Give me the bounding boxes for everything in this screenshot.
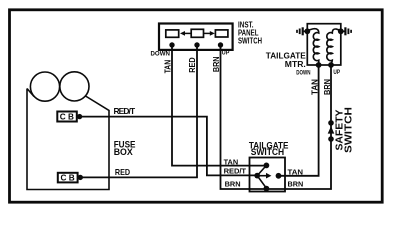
S1 right button bbox=[215, 30, 228, 37]
fuse box outline bbox=[27, 89, 109, 190]
S2 wiper to bottom contact bbox=[257, 176, 266, 189]
FUSE BOX label bbox=[114, 139, 136, 157]
M1 DOWN winding coil bbox=[307, 29, 319, 65]
svg-text:TAN: TAN bbox=[163, 60, 173, 74]
wire TAN : S1 DOWN terminal to tailgate switch top contact bbox=[172, 45, 266, 166]
S1 terminal dot UP bbox=[218, 42, 223, 47]
SAFETY SWITCH label (rotated) bbox=[334, 107, 354, 153]
S2 common contact dot (left) bbox=[254, 173, 260, 179]
svg-text:RED: RED bbox=[115, 167, 130, 177]
svg-text:RED: RED bbox=[187, 57, 197, 73]
svg-text:SWITCH: SWITCH bbox=[238, 36, 262, 46]
ground (left of motor) bbox=[297, 27, 307, 35]
S1 left arrow bbox=[180, 31, 191, 36]
S2 top contact dot bbox=[264, 163, 270, 169]
INST. PANEL SWITCH label bbox=[238, 19, 262, 45]
wire RED : CB2 up to instrument panel switch bbox=[81, 45, 198, 177]
CB2 terminal dot bbox=[78, 175, 83, 180]
svg-text:BRN: BRN bbox=[225, 180, 241, 189]
TAILGATE SWITCH title bbox=[249, 140, 289, 157]
svg-text:BRN: BRN bbox=[288, 179, 304, 188]
M1 top-right terminal dot bbox=[338, 28, 344, 34]
S1 left button bbox=[166, 30, 179, 37]
svg-text:C B: C B bbox=[61, 174, 75, 183]
M1 UP winding coil bbox=[327, 29, 341, 65]
wire TAN : S2 right contact up to motor DOWN winding bbox=[279, 65, 319, 176]
svg-text:BRN: BRN bbox=[211, 56, 221, 72]
TAILGATE MTR. label bbox=[266, 51, 306, 70]
S2 wiper to top contact bbox=[257, 165, 266, 175]
svg-text:SWITCH: SWITCH bbox=[343, 107, 354, 153]
instrument panel switch S1 box bbox=[159, 24, 233, 50]
circuit breaker CB1 box bbox=[57, 112, 77, 122]
svg-text:TAN: TAN bbox=[224, 158, 239, 167]
svg-text:DOWN: DOWN bbox=[296, 70, 311, 77]
svg-text:UP: UP bbox=[222, 50, 230, 57]
circuit breaker CB2 box bbox=[58, 173, 78, 183]
svg-text:TAN: TAN bbox=[288, 168, 304, 177]
M1 top-left terminal dot bbox=[304, 28, 310, 34]
S2 bottom contact dot bbox=[264, 186, 270, 192]
frame border bbox=[10, 10, 383, 202]
svg-text:RED/T: RED/T bbox=[224, 167, 247, 176]
S2 right contact dot bbox=[276, 173, 282, 179]
safety switch S3 lower dot bbox=[328, 136, 334, 142]
safety switch S3 upper dot bbox=[328, 120, 334, 126]
M1 bottom terminal dot (UP/BRN) bbox=[328, 62, 334, 68]
wire RED/T : CB1 to tailgate switch feed bbox=[80, 117, 255, 176]
S1 center button bbox=[191, 29, 203, 37]
svg-text:MTR.: MTR. bbox=[285, 59, 306, 69]
fuse box circuit breaker coil 2 bbox=[60, 72, 89, 101]
svg-text:TAN: TAN bbox=[309, 79, 319, 95]
S1 right arrow bbox=[204, 31, 215, 36]
tailgate motor M1 box bbox=[307, 24, 341, 65]
svg-text:RED/T: RED/T bbox=[114, 106, 136, 116]
svg-text:BOX: BOX bbox=[114, 147, 133, 157]
S2 wiper arrow to right contact bbox=[257, 173, 271, 179]
svg-text:C B: C B bbox=[60, 113, 74, 122]
M1 bottom terminal dot (DOWN/TAN) bbox=[316, 62, 322, 68]
safety switch S3 arrow bbox=[328, 126, 335, 133]
svg-text:BRN: BRN bbox=[322, 79, 332, 95]
wire BRN : S1 UP terminal to safety switch / motor bbox=[221, 45, 332, 189]
fuse box circuit breaker coil 1 bbox=[30, 72, 59, 101]
S1 terminal dot center bbox=[194, 42, 199, 47]
ground (right of motor) bbox=[341, 27, 351, 35]
svg-text:UP: UP bbox=[333, 69, 340, 76]
svg-text:DOWN: DOWN bbox=[151, 51, 171, 58]
CB1 terminal dot bbox=[77, 114, 82, 119]
tailgate switch S2 box bbox=[250, 158, 286, 192]
svg-text:SWITCH: SWITCH bbox=[251, 147, 285, 157]
S1 terminal dot DOWN bbox=[169, 42, 174, 47]
